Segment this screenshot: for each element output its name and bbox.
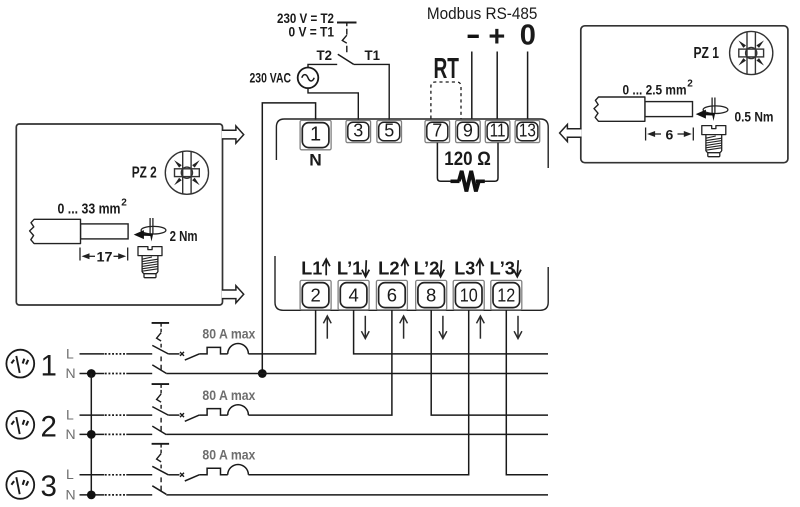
wire N3 out to right: [166, 494, 548, 496]
PZ1 info box: [581, 26, 788, 163]
wire cable PZ1: [594, 97, 693, 121]
wire L3 fuse to terminal 10: [248, 310, 468, 475]
junction dot N2 link: [87, 430, 96, 439]
svg-text:0: 0: [520, 19, 536, 51]
svg-text:2: 2: [121, 198, 127, 209]
resistor 120ohm leads: [437, 143, 498, 182]
wire L1 lead-in solid: [80, 353, 105, 355]
wire N1 lead-in solid: [80, 373, 105, 375]
terminal 5: [377, 120, 402, 142]
wire zero to terminal 13: [527, 52, 529, 119]
wire L'1 output from terminal 4: [354, 310, 548, 354]
svg-text:0 ... 2.5 mm: 0 ... 2.5 mm: [623, 82, 687, 98]
svg-text:4: 4: [348, 284, 358, 305]
meter device upper bracket outline: [276, 119, 548, 168]
wire plus to terminal 11: [496, 52, 498, 119]
svg-text:T2: T2: [317, 48, 333, 63]
wire L2 lead-in solid: [80, 414, 105, 416]
arrow down below terminal 8: [439, 316, 447, 339]
svg-text:2: 2: [310, 284, 320, 305]
svg-text:1: 1: [40, 350, 56, 383]
terminal 9: [456, 120, 481, 142]
svg-text:L: L: [66, 407, 74, 423]
svg-text:80 A max: 80 A max: [202, 327, 255, 342]
svg-text:230 VAC: 230 VAC: [250, 70, 292, 85]
wire N2 to breaker: [126, 433, 152, 435]
terminal 6: [376, 280, 407, 309]
svg-text:L’1: L’1: [337, 258, 363, 279]
switch S-T blade: [338, 54, 354, 64]
arrow up below terminal 10: [477, 316, 485, 339]
wire N3 lead-in solid: [80, 494, 105, 496]
svg-text:+: +: [488, 21, 505, 53]
wire L'2 output from terminal 8: [431, 310, 548, 415]
breaker Q2 two-pole: [152, 384, 249, 435]
wire L2 to breaker: [126, 414, 152, 416]
svg-text:L’2: L’2: [414, 258, 440, 279]
junction dot N1 link: [87, 369, 96, 378]
wire N3 lead-in dotted: [105, 494, 126, 496]
switch S-T anchor bar: [337, 23, 357, 27]
svg-text:L3: L3: [454, 258, 475, 279]
terminal 1: [300, 120, 331, 149]
switch S-T trip dashed link: [342, 29, 347, 53]
wire L3 lead-in dotted: [105, 474, 126, 476]
resistor 120ohm zigzag: [459, 171, 479, 192]
svg-text:10: 10: [460, 284, 478, 305]
label minus: [468, 35, 479, 38]
wire N2 lead-in solid: [80, 433, 105, 435]
pozidriv head PZ1: [730, 31, 773, 74]
arrow up below terminal 6: [400, 316, 408, 339]
meter device lower bracket outline: [275, 256, 548, 310]
resistor RT optional dashed box: [431, 82, 461, 119]
svg-text:3: 3: [40, 470, 56, 503]
breaker Q1 two-pole: [152, 323, 249, 374]
junction dot N to terminal 1: [258, 369, 267, 378]
wire switch to terminal 5: [354, 64, 390, 120]
svg-text:T1: T1: [365, 48, 381, 63]
wire N common vertical link: [90, 374, 92, 495]
arrow down below terminal 4: [361, 316, 369, 339]
svg-text:120 Ω: 120 Ω: [444, 148, 491, 170]
svg-text:N: N: [66, 365, 76, 381]
svg-text:12: 12: [497, 284, 515, 305]
svg-text:PZ 1: PZ 1: [694, 45, 720, 62]
screwdriver torque icon PZ2: [134, 218, 166, 242]
terminal 2: [300, 280, 331, 309]
terminal 3: [346, 120, 371, 142]
svg-text:N: N: [309, 152, 322, 170]
screw PZ2: [138, 247, 162, 278]
svg-text:11: 11: [490, 120, 506, 140]
terminal 4: [338, 280, 369, 309]
terminal 11: [485, 120, 510, 142]
wire N2 lead-in dotted: [105, 433, 126, 435]
wire N1 out to right: [166, 373, 548, 375]
wire N1 lead-in dotted: [105, 373, 126, 375]
svg-text:0 V = T1: 0 V = T1: [289, 25, 335, 40]
dimension 17: [80, 248, 128, 261]
svg-text:6: 6: [387, 284, 397, 305]
wire N1 to breaker: [126, 373, 152, 375]
terminal 13: [515, 120, 540, 142]
dimension 6: [646, 128, 694, 141]
wire L1 lead-in dotted: [105, 353, 126, 355]
wire L1 fuse to terminal 2: [248, 310, 315, 354]
terminal 8: [416, 280, 447, 309]
wire L1 to breaker: [126, 353, 152, 355]
wire L2 fuse to terminal 6: [248, 310, 392, 415]
breaker Q3 two-pole: [152, 444, 249, 495]
screw PZ1: [702, 126, 726, 157]
svg-text:0 ... 33 mm: 0 ... 33 mm: [58, 202, 121, 218]
svg-text:1: 1: [310, 123, 321, 145]
arrow down below terminal 12: [514, 316, 522, 339]
wire L2 lead-in dotted: [105, 414, 126, 416]
svg-text:2: 2: [687, 79, 693, 90]
svg-text:17: 17: [97, 249, 113, 265]
wire L3 lead-in solid: [80, 474, 105, 476]
svg-text:80 A max: 80 A max: [202, 448, 255, 463]
svg-text:RT: RT: [434, 53, 460, 85]
PZ2 arrow top: [222, 126, 244, 143]
wire L'3 output from terminal 12: [506, 310, 548, 475]
wire L3 to breaker: [126, 474, 152, 476]
svg-text:7: 7: [432, 120, 442, 140]
svg-text:L2: L2: [378, 258, 400, 279]
PZ1 arrow left: [560, 124, 582, 141]
terminal 10: [453, 280, 484, 309]
PZ2 arrow bottom: [222, 286, 244, 303]
svg-text:N: N: [66, 487, 76, 503]
wire source-bottom to terminal 3: [308, 88, 358, 120]
meter M1 icon: [6, 350, 34, 378]
svg-text:L’3: L’3: [490, 258, 516, 279]
wire source-top to switch: [308, 64, 337, 67]
svg-text:80 A max: 80 A max: [202, 388, 255, 403]
screwdriver torque icon PZ1: [696, 98, 728, 122]
terminal 12: [491, 280, 522, 309]
wire cable PZ2: [30, 219, 129, 243]
terminal 7: [425, 120, 450, 142]
arrow up below terminal 2: [323, 316, 331, 339]
PZ2 info box: [16, 124, 222, 305]
meter M3 icon: [6, 471, 34, 499]
svg-text:2: 2: [40, 411, 56, 444]
source V1 230VAC circle: [298, 68, 319, 89]
svg-text:L: L: [66, 466, 74, 482]
svg-text:2 Nm: 2 Nm: [170, 229, 198, 245]
svg-text:9: 9: [463, 120, 473, 140]
pozidriv head PZ2: [165, 151, 208, 194]
svg-text:8: 8: [426, 284, 436, 305]
wire terminal1-N down to N junction: [262, 103, 315, 374]
wire minus to terminal 9: [471, 52, 473, 119]
meter M2 icon: [6, 411, 34, 439]
svg-text:13: 13: [519, 120, 536, 140]
svg-text:PZ 2: PZ 2: [132, 164, 157, 181]
svg-text:N: N: [66, 426, 76, 442]
svg-text:6: 6: [666, 126, 674, 142]
junction dot N3 link: [87, 491, 96, 500]
svg-text:L1: L1: [301, 258, 322, 279]
wire N3 to breaker: [126, 494, 152, 496]
svg-text:5: 5: [384, 120, 394, 140]
svg-text:L: L: [66, 345, 74, 361]
wire N2 out to right: [166, 433, 548, 435]
svg-text:3: 3: [353, 120, 363, 140]
svg-text:0.5 Nm: 0.5 Nm: [735, 110, 774, 125]
